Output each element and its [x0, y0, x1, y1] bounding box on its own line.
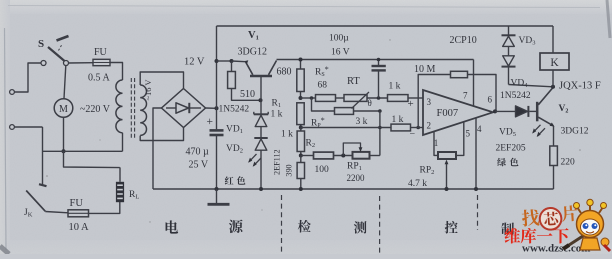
node bridge output — [215, 106, 219, 110]
wire — [14, 63, 41, 92]
node output — [493, 109, 497, 113]
op-amp U1 F007 — [408, 90, 494, 148]
LED VD2 red — [226, 138, 268, 189]
transformer secondary winding — [140, 80, 153, 136]
label 2EF112 — [273, 149, 282, 175]
separator — [281, 195, 283, 253]
wire pin1 — [434, 132, 438, 155]
wire pin7 — [473, 60, 475, 107]
transistor V1 — [232, 30, 277, 100]
input terminal lower — [10, 125, 15, 130]
switch S — [38, 36, 69, 66]
wire — [64, 151, 120, 167]
resistor 1k pin2 — [391, 115, 411, 131]
wire row1 — [301, 97, 316, 99]
wire — [206, 107, 217, 109]
wire top rail — [217, 25, 554, 27]
node — [299, 126, 303, 130]
wire pin2 row — [301, 127, 391, 129]
watermark logo zhao-xin-pian — [521, 205, 578, 232]
watermark mascot — [563, 199, 610, 251]
resistor 390 — [285, 156, 305, 190]
fuse FU 10A — [45, 198, 89, 233]
capacitor 100u — [329, 34, 386, 99]
wire — [119, 167, 121, 181]
wire — [89, 202, 120, 213]
potentiometer RP2 4.7k — [408, 152, 456, 189]
wire — [43, 150, 123, 152]
node — [377, 58, 381, 62]
node — [215, 187, 219, 191]
wire — [379, 111, 381, 156]
resistor 100 — [301, 152, 353, 175]
resistor 220 — [550, 126, 575, 189]
wire 0V rail — [153, 188, 554, 190]
wire pin5 — [456, 122, 464, 156]
relay contact JK — [24, 184, 47, 218]
node — [445, 187, 449, 191]
wire — [367, 97, 388, 99]
relay coil K — [540, 26, 601, 92]
separator — [379, 196, 381, 253]
section label detect — [298, 220, 367, 234]
wire — [354, 110, 380, 112]
node 12V — [184, 57, 219, 68]
node relay/collector — [551, 85, 555, 89]
thermistor RT — [344, 76, 372, 109]
wire — [153, 108, 162, 189]
wire — [411, 127, 424, 129]
wire row2 — [312, 98, 335, 111]
node — [378, 109, 382, 113]
potentiometer RP1 2200 — [343, 143, 380, 183]
wire — [140, 72, 183, 88]
input terminal upper — [10, 90, 15, 95]
load resistor RL — [116, 182, 139, 202]
wire — [42, 127, 44, 185]
separator — [477, 195, 479, 230]
wire output row — [495, 110, 516, 112]
wire — [110, 63, 123, 81]
wire — [63, 117, 65, 151]
zener VD1 1N5242 — [219, 100, 269, 137]
ground — [208, 189, 230, 204]
node — [341, 154, 345, 158]
wire — [217, 60, 232, 62]
transformer core — [131, 78, 134, 138]
bridge rectifier — [162, 89, 206, 128]
wire — [336, 97, 345, 99]
watermark url — [522, 243, 590, 255]
wire — [122, 133, 124, 152]
LED VD5 green 2EF205 — [496, 106, 546, 154]
node — [299, 58, 303, 62]
wire to pin3 — [408, 97, 423, 99]
node V1 base — [259, 98, 263, 102]
node — [299, 154, 303, 158]
resistor 1k row1 — [388, 82, 409, 102]
wire regulated supply line — [277, 59, 474, 61]
node motor junction — [62, 149, 66, 153]
label green — [497, 158, 518, 167]
node — [299, 96, 303, 100]
wire — [140, 128, 183, 141]
node — [230, 59, 234, 63]
transformer T primary winding — [116, 80, 123, 133]
resistor R1 — [271, 99, 305, 128]
node — [377, 96, 381, 100]
node — [310, 96, 314, 100]
resistor RS* 68 — [315, 65, 336, 101]
node — [474, 187, 478, 191]
label red — [225, 176, 246, 184]
resistor R2 — [281, 128, 315, 156]
wire — [14, 126, 42, 128]
fuse FU 0.5A — [69, 47, 111, 84]
diode VD3 2CP10 — [450, 26, 536, 56]
watermark weiku text — [505, 228, 569, 244]
capacitor C1 470u — [186, 116, 224, 189]
motor M — [54, 66, 111, 118]
resistor 10M feedback — [414, 64, 496, 128]
resistor 510 — [228, 61, 259, 100]
resistor RP* 3k — [311, 108, 368, 129]
transistor V2 — [537, 88, 589, 137]
section label control — [445, 221, 514, 235]
zener VD4 1N5242 — [500, 56, 553, 101]
node — [416, 126, 420, 130]
node — [378, 126, 382, 130]
wire +12V bus — [216, 26, 218, 129]
resistor 680 — [277, 60, 305, 99]
node — [299, 187, 303, 191]
wire pin4 — [475, 118, 477, 189]
section label power — [166, 220, 243, 234]
node — [259, 187, 263, 191]
